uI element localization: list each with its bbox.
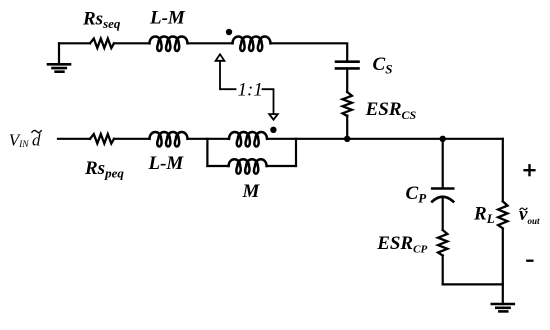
resistor ESR_CS (vertical) xyxy=(343,92,352,116)
transformer winding secondary (top) xyxy=(233,37,271,51)
1:1 arrow up xyxy=(216,54,236,89)
right vertical top: corner to RL xyxy=(502,139,504,202)
svg-text:M: M xyxy=(242,181,261,202)
junction dot at ESRcs xyxy=(344,136,350,142)
transformer winding primary (middle) xyxy=(229,132,267,146)
box bottom left wire xyxy=(207,165,228,167)
svg-text:VIN d: VIN d xyxy=(9,131,41,151)
Cp branch: wire down xyxy=(442,139,444,187)
box right vertical xyxy=(295,139,297,166)
tilde over v xyxy=(520,208,527,210)
svg-text:CS: CS xyxy=(373,54,393,77)
wire Cp to ESRcp xyxy=(442,198,444,231)
wire to Cs corner xyxy=(271,43,348,60)
box bottom right wire xyxy=(267,165,296,167)
1:1 arrow down xyxy=(263,89,278,120)
svg-text:ESRCS: ESRCS xyxy=(365,99,417,122)
resistor Rs_seq xyxy=(90,39,114,48)
wire to parallel box xyxy=(188,138,230,140)
inductor L-M middle xyxy=(150,132,188,146)
label plus xyxy=(525,165,535,175)
svg-text:1:1: 1:1 xyxy=(238,80,263,101)
svg-text:L-M: L-M xyxy=(148,153,185,174)
ground bottom-right xyxy=(492,284,514,311)
inductor L-M top xyxy=(150,37,188,51)
wire xyxy=(114,42,150,44)
bottom wire xyxy=(443,283,503,285)
parallel box left vertical xyxy=(206,139,208,166)
wire RL to bottom xyxy=(502,230,504,285)
svg-text:L-M: L-M xyxy=(149,8,186,29)
resistor RL (vertical) xyxy=(498,201,507,228)
resistor ESR_CP (vertical) xyxy=(438,230,447,255)
label minus xyxy=(527,260,532,262)
wire ESRcp to bottom xyxy=(442,256,444,285)
wire ESRcs to junction xyxy=(346,116,348,139)
wire Cs to ESRcs xyxy=(346,70,348,92)
capacitor Cp (polarized) xyxy=(432,187,453,190)
wire xyxy=(114,138,150,140)
svg-text:vout: vout xyxy=(519,204,540,226)
ground top-left xyxy=(48,43,70,71)
svg-text:ESRCP: ESRCP xyxy=(376,233,427,256)
svg-text:Rspeq: Rspeq xyxy=(84,158,124,181)
dot middle winding xyxy=(270,127,276,133)
tilde over d xyxy=(32,130,41,132)
svg-text:Rsseq: Rsseq xyxy=(82,8,121,31)
dot top winding xyxy=(226,29,232,35)
middle wire to right corner xyxy=(267,138,503,140)
resistor Rs_peq xyxy=(90,134,114,143)
svg-text:CP: CP xyxy=(406,183,428,206)
inductor M xyxy=(229,159,267,173)
junction dot at Cp branch xyxy=(440,136,446,142)
svg-text:RL: RL xyxy=(473,204,495,227)
wire xyxy=(188,42,233,44)
capacitor Cs xyxy=(336,62,359,69)
wire middle row: source to resistor xyxy=(58,138,90,140)
wire top row: ground to resistor xyxy=(59,42,90,44)
